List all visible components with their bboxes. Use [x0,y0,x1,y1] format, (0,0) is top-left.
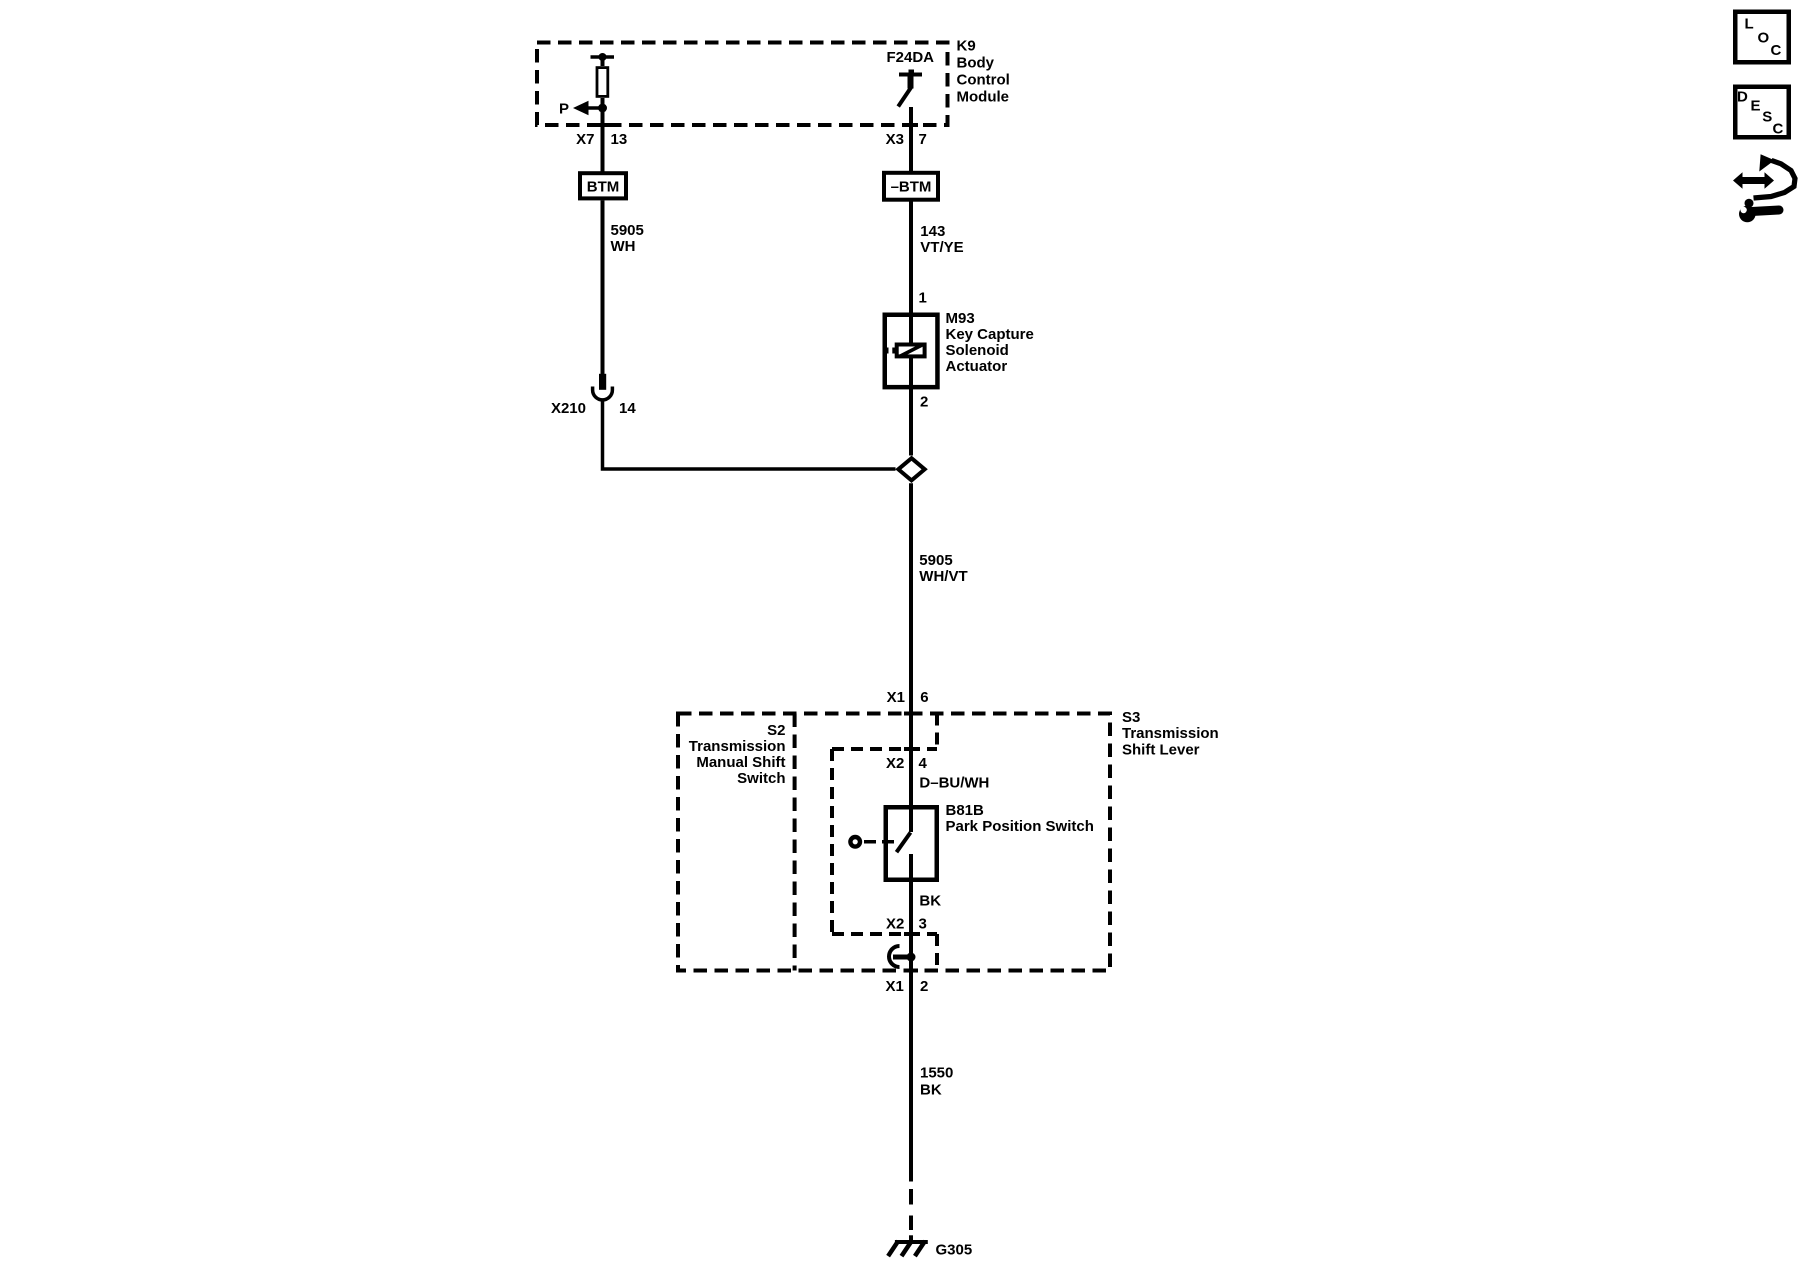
wire label 143 VT/YE [920,223,963,256]
svg-text:Module: Module [957,89,1010,106]
wire [909,107,913,172]
svg-text:4: 4 [919,755,928,772]
svg-text:Park Position Switch: Park Position Switch [946,818,1094,835]
actuator circle [850,837,860,847]
arrow to P [573,101,603,115]
svg-text:D–BU/WH: D–BU/WH [919,775,989,792]
icon DESC box [1735,87,1789,138]
svg-text:Control: Control [957,72,1010,89]
wrench [1752,210,1779,212]
svg-text:X2: X2 [886,755,904,772]
resistor (internal BCM element) [597,68,608,97]
svg-text:143: 143 [920,223,945,240]
tick where wire crosses inner box bottom [904,932,918,936]
svg-text:S: S [1762,109,1772,126]
svg-text:2: 2 [920,394,928,411]
connector X1 pin 2 symbol [889,946,915,967]
lever S3 label [1122,709,1219,759]
curved outlined arrow [1754,160,1796,198]
module K9 Body Control Module dashed box [537,43,948,128]
svg-text:7: 7 [919,131,927,148]
svg-text:2: 2 [920,978,928,995]
switch B81B label [946,802,1094,835]
svg-text:WH/VT: WH/VT [919,568,967,585]
splice diamond [898,458,924,480]
double-headed arrow [1733,172,1774,188]
tick where wire crosses S2/S3 box bottom [904,969,918,973]
svg-text:VT/YE: VT/YE [920,239,963,256]
svg-text:BK: BK [920,1082,942,1099]
tick where wire crosses S2/S3 box top [904,712,918,716]
svg-text:X1: X1 [885,978,903,995]
svg-text:5905: 5905 [611,222,644,239]
wire label 5905 WH/VT [919,552,967,585]
svg-text:X2: X2 [886,916,904,933]
svg-text:BTM: BTM [587,179,620,196]
svg-text:G305: G305 [936,1242,973,1259]
svg-text:Shift Lever: Shift Lever [1122,742,1200,759]
svg-text:C: C [1773,121,1784,138]
switch S2 label [689,722,786,787]
wire [601,57,605,66]
icon LOC box [1735,12,1789,63]
solenoid M93 label [946,310,1034,375]
terminal box -BTM [884,173,938,200]
svg-text:O: O [1758,30,1770,47]
wire label 5905 WH [611,222,644,255]
svg-text:Transmission: Transmission [689,738,786,755]
module K9 label [957,38,1010,106]
svg-text:5905: 5905 [919,552,952,569]
svg-text:Switch: Switch [737,770,785,787]
wire label 1550 BK [920,1065,953,1099]
solenoid M93 box [885,315,938,387]
wire [601,98,605,172]
wire [601,200,605,374]
svg-text:S3: S3 [1122,709,1140,726]
wire [909,200,913,455]
svg-text:E: E [1751,98,1761,115]
svg-text:WH: WH [611,238,636,255]
svg-text:1: 1 [919,290,927,307]
dashed wire to ground [909,1189,913,1230]
svg-text:L: L [1745,16,1754,33]
svg-text:M93: M93 [946,310,975,327]
svg-text:Key Capture: Key Capture [946,326,1034,343]
ground G305 [888,1241,928,1256]
svg-text:K9: K9 [957,38,976,55]
svg-text:D: D [1737,89,1748,106]
svg-text:F24DA: F24DA [887,49,935,66]
switch S2/S3 outer dashed box [678,714,1110,971]
wire [909,971,913,1182]
tick where wire crosses inner box top [904,747,918,751]
svg-text:C: C [1771,42,1782,59]
terminal node at top of resistor [591,53,615,61]
switch B81B Park Position Switch box [886,807,937,880]
svg-text:Transmission: Transmission [1122,725,1219,742]
node P junction dot [598,104,607,113]
svg-text:1550: 1550 [920,1065,953,1082]
svg-text:6: 6 [920,689,928,706]
svg-text:13: 13 [611,131,628,148]
svg-text:BK: BK [919,893,941,910]
svg-text:Solenoid: Solenoid [946,342,1009,359]
mechanical linkage dashed [864,840,896,844]
icon repair (arrows and wrench) [1733,154,1795,222]
svg-text:X1: X1 [887,689,905,706]
svg-text:Manual Shift: Manual Shift [696,754,785,771]
svg-text:Body: Body [957,55,995,72]
wire [909,882,913,971]
svg-text:X3: X3 [886,131,904,148]
svg-text:P: P [559,101,569,118]
svg-text:X210: X210 [551,400,586,417]
switch B81B contacts [897,805,912,882]
terminal box BTM [580,173,626,198]
inner dashed box around B81B [832,714,937,971]
switch F24DA (BCM internal driver) [898,70,922,107]
divider between S2 and S3 [793,714,797,971]
svg-text:B81B: B81B [946,802,985,819]
wire [909,483,913,805]
connector X210 pin 14 [593,374,613,400]
svg-text:X7: X7 [576,131,594,148]
svg-text:–BTM: –BTM [891,179,932,196]
svg-text:Actuator: Actuator [946,358,1008,375]
wire [603,401,896,470]
svg-text:14: 14 [619,400,636,417]
solenoid M93 coil symbol [885,345,925,357]
svg-text:3: 3 [919,916,927,933]
svg-text:S2: S2 [767,722,785,739]
